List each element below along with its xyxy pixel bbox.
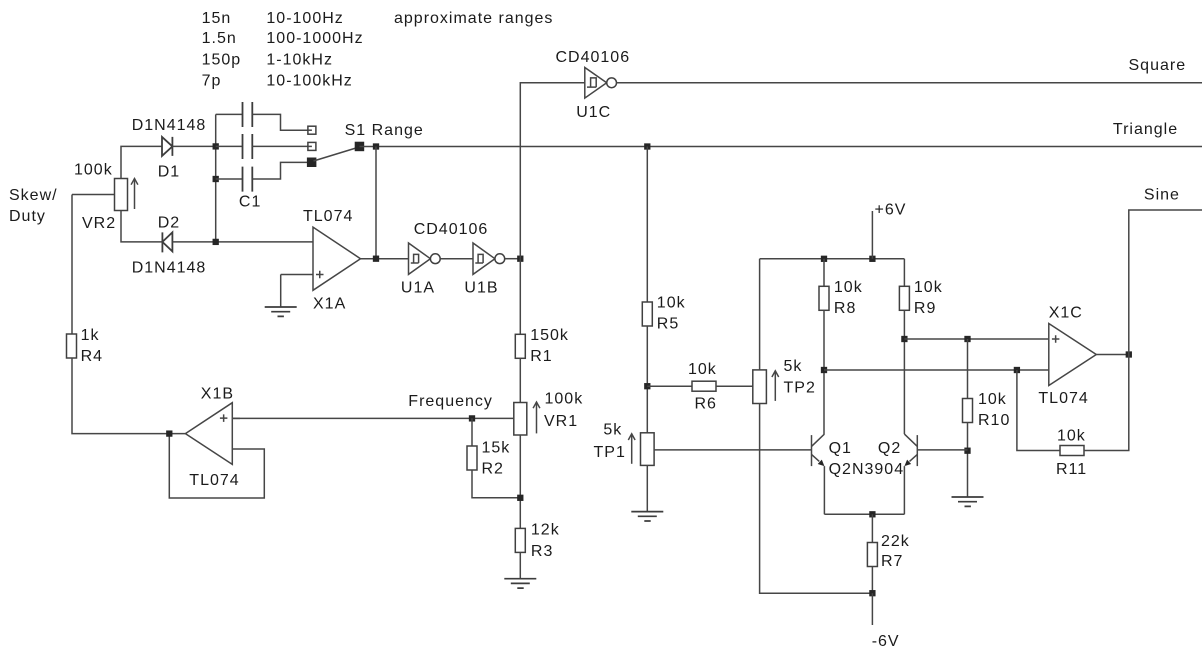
svg-text:Frequency: Frequency — [408, 393, 493, 410]
wire U1A to U1B — [440, 258, 473, 260]
svg-text:15n: 15n — [202, 10, 232, 27]
svg-text:1k: 1k — [81, 327, 100, 344]
wire -6V stem — [871, 593, 873, 625]
transistor Q1 emitter — [812, 454, 820, 461]
svg-text:R3: R3 — [531, 543, 553, 560]
svg-text:5k: 5k — [603, 422, 622, 439]
transistor Q2 emitter arrowhead — [904, 460, 911, 467]
svg-text:X1B: X1B — [201, 386, 234, 403]
junction U1B output bus — [517, 256, 523, 262]
wire Triangle down to R5 — [646, 147, 648, 303]
wire D1 to cap bus — [172, 145, 215, 147]
wire R2 top — [471, 418, 473, 446]
svg-text:X1A: X1A — [313, 296, 346, 313]
svg-text:R11: R11 — [1056, 461, 1087, 478]
svg-text:15k: 15k — [482, 440, 511, 457]
wire R5 to TP1 — [646, 326, 648, 433]
svg-text:U1C: U1C — [576, 104, 611, 121]
resistor R5 — [642, 302, 652, 326]
inverter U1C — [585, 68, 607, 99]
svg-text:Duty: Duty — [9, 208, 46, 225]
junction Frequency/R2 — [469, 415, 475, 421]
junction R9/X1C plus net — [901, 336, 907, 342]
wire R11 right leg to output — [1084, 355, 1129, 451]
diode D1 — [162, 137, 172, 156]
svg-text:Q2: Q2 — [878, 440, 901, 457]
wire TP1 wiper to Q1 base — [654, 449, 811, 451]
resistor R9 — [899, 286, 909, 310]
wire VR1 bottom — [519, 435, 521, 528]
svg-text:R5: R5 — [657, 316, 679, 333]
S1 terminal 2 (open) — [308, 142, 316, 150]
potentiometer TP1 — [641, 433, 655, 466]
wire R7 top — [871, 514, 873, 542]
svg-text:D1N4148: D1N4148 — [132, 117, 207, 134]
wire X1A plus input — [281, 274, 313, 276]
junction R5/R6 — [644, 383, 650, 389]
inverter U1B — [473, 243, 495, 274]
inverter U1A — [409, 243, 431, 274]
potentiometer VR2 arrowhead — [131, 179, 138, 185]
potentiometer TP2 arrowhead — [772, 371, 779, 377]
svg-text:U1B: U1B — [464, 279, 498, 296]
wire R10 to ground — [967, 423, 969, 498]
svg-text:5k: 5k — [784, 358, 803, 375]
wire Q1 emitter down — [823, 466, 825, 514]
wire C1a to S1 terminal 1 — [252, 114, 308, 130]
wire X1C inverting net — [824, 369, 1049, 371]
svg-text:R8: R8 — [834, 300, 856, 317]
svg-text:150k: 150k — [530, 327, 569, 344]
wire C1c to S1 terminal 3 — [252, 162, 307, 179]
op-amp X1A plus sign — [316, 271, 324, 279]
svg-text:TL074: TL074 — [1038, 390, 1088, 407]
wire R11 feedback left leg — [1017, 370, 1060, 451]
wire U1B output to bus — [505, 258, 521, 260]
potentiometer VR1 arrowhead — [533, 402, 540, 408]
resistor R3 — [515, 528, 525, 552]
junction R7/-6V — [869, 590, 875, 596]
op-amp X1C plus sign — [1052, 335, 1060, 343]
S1 terminal 1 (open) — [308, 126, 316, 134]
wire X1B feedback loop — [169, 434, 264, 498]
svg-text:VR2: VR2 — [82, 215, 116, 232]
svg-text:Triangle: Triangle — [1113, 121, 1178, 138]
junction Triangle/R5 — [644, 143, 650, 149]
transistor Q1 collector — [812, 434, 825, 446]
op-amp X1A — [313, 227, 361, 290]
svg-text:10k: 10k — [688, 361, 717, 378]
wire TP1 to ground — [646, 465, 648, 511]
wire R1 to VR1 — [519, 358, 521, 402]
inverter U1C hysteresis glyph — [587, 78, 596, 87]
ground R3 — [504, 579, 536, 588]
wire stub into S1 terminal 2 — [308, 145, 312, 147]
svg-text:R6: R6 — [695, 396, 717, 413]
svg-text:Q1: Q1 — [829, 440, 852, 457]
inverter U1A bubble — [430, 254, 440, 264]
potentiometer TP2 arrow — [774, 371, 776, 401]
wire Frequency net — [232, 417, 514, 419]
wire +6V rail — [760, 258, 905, 260]
junction X1A output — [373, 256, 379, 262]
ground TP1 — [631, 512, 663, 521]
wire Sine net — [1129, 210, 1202, 355]
svg-text:1-10kHz: 1-10kHz — [266, 51, 333, 68]
wire Skew/Duty to VR2 wiper — [72, 194, 115, 196]
wire X1C output — [1096, 354, 1129, 356]
capacitor C1c plates — [243, 167, 253, 192]
svg-text:10k: 10k — [1057, 428, 1086, 445]
wire stub into S1 terminal 1 — [308, 129, 312, 131]
svg-text:D1: D1 — [158, 163, 180, 180]
wire bus up to U1C — [520, 83, 585, 259]
op-amp X1C — [1049, 324, 1097, 386]
svg-text:approximate ranges: approximate ranges — [394, 10, 553, 27]
capacitor C1a plates — [243, 102, 253, 127]
svg-text:100k: 100k — [74, 161, 113, 178]
transistor Q2 emitter — [910, 454, 918, 461]
wire emitters common — [824, 513, 904, 515]
resistor R10 — [963, 399, 973, 423]
junction inverting net/R11 — [1014, 367, 1020, 373]
power +6V stem — [871, 211, 873, 259]
wire to capacitor C1c — [216, 178, 243, 180]
junction emitters/R7 — [869, 511, 875, 517]
svg-text:1.5n: 1.5n — [202, 30, 237, 47]
svg-text:TP2: TP2 — [784, 380, 816, 397]
svg-text:D1N4148: D1N4148 — [132, 259, 207, 276]
resistor R11 — [1060, 446, 1084, 456]
wire R3 to ground — [519, 552, 521, 578]
wire R6 right to TP2 — [716, 385, 753, 387]
svg-text:CD40106: CD40106 — [414, 221, 489, 238]
transistor Q1 base bar — [811, 435, 813, 466]
svg-text:10k: 10k — [914, 279, 943, 296]
svg-text:TL074: TL074 — [189, 472, 239, 489]
svg-text:22k: 22k — [881, 533, 910, 550]
wire TP2 bottom to -6V — [760, 404, 873, 594]
wire R7 bottom — [871, 567, 873, 594]
resistor R1 — [515, 334, 525, 358]
wire TP2 top to +6V rail — [759, 259, 761, 370]
potentiometer TP2 — [753, 370, 767, 404]
potentiometer VR2 — [115, 179, 128, 211]
wire R6 left — [647, 385, 692, 387]
svg-text:Square: Square — [1129, 57, 1187, 74]
wire R9 top — [903, 259, 905, 287]
junction R2/R3 — [517, 495, 523, 501]
svg-text:TP1: TP1 — [594, 444, 626, 461]
potentiometer VR1 arrow — [536, 402, 538, 433]
svg-text:D2: D2 — [158, 214, 180, 231]
junction S1/vertical — [373, 143, 379, 149]
resistor R7 — [867, 543, 877, 567]
potentiometer VR1 — [514, 403, 527, 436]
svg-text:10k: 10k — [834, 279, 863, 296]
junction bus/D1 — [213, 143, 219, 149]
value table C1 ranges — [202, 10, 554, 90]
switch S1 lever — [314, 148, 357, 161]
wire VR2 top to D1 — [121, 146, 162, 178]
svg-text:R9: R9 — [914, 300, 936, 317]
transistor Q1 emitter arrowhead — [818, 460, 825, 467]
wire bus down to R1 — [519, 259, 521, 335]
junction X1B feedback/output — [166, 430, 172, 436]
wire capacitor bus vertical — [215, 114, 217, 241]
inverter U1A hysteresis glyph — [411, 254, 419, 263]
svg-text:-6V: -6V — [872, 633, 900, 650]
wire S1 down to X1A output — [375, 147, 377, 259]
wire X1B plus input to Frequency — [232, 417, 240, 419]
svg-text:Skew/: Skew/ — [9, 187, 58, 204]
wire to capacitor C1a — [216, 113, 243, 115]
resistor R2 — [467, 446, 477, 470]
wire R4 to X1B output — [72, 358, 185, 434]
svg-text:100k: 100k — [545, 391, 584, 408]
wire Skew/Duty down to R4 — [71, 195, 73, 335]
inverter U1B hysteresis glyph — [475, 254, 483, 263]
switch S1 pole — [355, 142, 365, 152]
svg-text:Sine: Sine — [1144, 187, 1180, 204]
wire Q2 base to R10 — [917, 449, 967, 451]
junction X1C output — [1126, 351, 1132, 357]
wire to capacitor C1b — [216, 145, 243, 147]
svg-text:10-100Hz: 10-100Hz — [266, 10, 343, 27]
junction rail/+6V — [869, 256, 875, 262]
S1 terminal 3 (selected contact) — [307, 158, 317, 168]
potentiometer TP1 arrow — [631, 434, 633, 464]
op-amp X1B — [185, 403, 232, 465]
svg-text:R4: R4 — [81, 348, 103, 365]
transistor Q2 collector — [904, 434, 917, 446]
inverter U1C bubble — [607, 78, 617, 88]
wire D2 to X1A inverting input — [172, 241, 313, 243]
wire plus input to ground — [280, 275, 282, 308]
svg-text:TL074: TL074 — [303, 208, 353, 225]
svg-text:+6V: +6V — [875, 201, 907, 218]
ground X1A — [265, 307, 297, 316]
junction bus/cap3 — [213, 176, 219, 182]
wire C1b to S1 terminal 2 — [252, 145, 308, 147]
wire R2 bottom to bus — [472, 470, 520, 498]
potentiometer TP1 arrowhead — [628, 434, 635, 440]
diode D2 — [162, 232, 172, 252]
wire X1A output — [361, 258, 409, 260]
svg-text:10-100kHz: 10-100kHz — [266, 73, 352, 90]
svg-text:10k: 10k — [657, 294, 686, 311]
svg-text:7p: 7p — [202, 73, 222, 90]
op-amp X1B plus sign — [220, 414, 228, 422]
svg-text:R7: R7 — [881, 553, 903, 570]
svg-text:S1 Range: S1 Range — [345, 122, 424, 139]
svg-text:R2: R2 — [482, 460, 504, 477]
wire X1C plus net — [904, 338, 1048, 340]
transistor Q2 base bar — [916, 435, 918, 466]
svg-text:R1: R1 — [530, 348, 552, 365]
wire VR2 bottom to D2 — [121, 211, 162, 242]
capacitor C1b plates — [243, 134, 253, 159]
wire Q2 emitter down — [903, 466, 905, 514]
junction R10/Q2 base — [964, 448, 970, 454]
svg-text:100-1000Hz: 100-1000Hz — [266, 30, 363, 47]
wire R8 top — [823, 259, 825, 287]
svg-text:C1: C1 — [239, 193, 261, 210]
inverter U1B bubble — [495, 254, 505, 264]
junction plus net/R10 — [964, 336, 970, 342]
svg-text:X1C: X1C — [1049, 305, 1083, 322]
potentiometer VR2 arrow — [134, 179, 136, 210]
wire R8 to Q1 collector — [823, 310, 825, 434]
svg-text:CD40106: CD40106 — [556, 49, 631, 66]
wire R9 to Q2 collector — [903, 310, 905, 434]
ground R10 — [952, 497, 984, 506]
svg-text:10k: 10k — [978, 391, 1007, 408]
wire Triangle net — [360, 146, 1202, 148]
resistor R4 — [67, 334, 77, 358]
wire Square net — [617, 82, 1202, 84]
resistor R8 — [819, 286, 829, 310]
junction R8/X1C inverting net — [821, 367, 827, 373]
svg-text:U1A: U1A — [401, 279, 435, 296]
svg-text:12k: 12k — [531, 522, 560, 539]
svg-text:R10: R10 — [978, 412, 1010, 429]
wire R10 top — [967, 339, 969, 399]
svg-text:VR1: VR1 — [544, 413, 578, 430]
svg-text:Q2N3904: Q2N3904 — [829, 461, 905, 478]
resistor R6 — [692, 381, 716, 391]
junction rail/R8 — [821, 256, 827, 262]
junction bus/D2 — [213, 239, 219, 245]
svg-text:150p: 150p — [202, 51, 242, 68]
